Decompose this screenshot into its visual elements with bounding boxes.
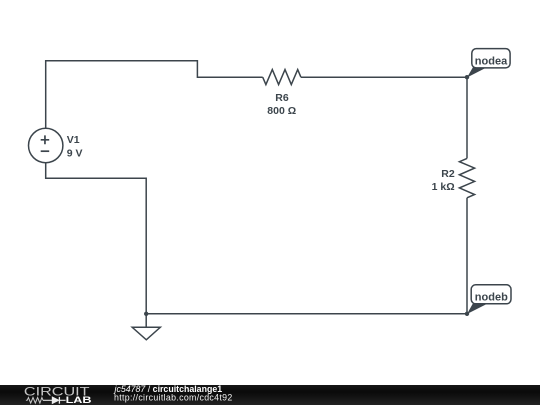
svg-text:1 kΩ: 1 kΩ <box>432 181 455 193</box>
svg-text:http://circuitlab.com/cdc4t92: http://circuitlab.com/cdc4t92 <box>114 393 233 403</box>
node B flag tail <box>467 304 488 314</box>
V1 plus symbol <box>41 135 50 144</box>
wire node A to R2 top <box>466 77 468 158</box>
logo diode bar <box>58 397 60 404</box>
wire V1 plus terminal to top-right step <box>46 61 263 129</box>
node B flag box <box>471 285 511 304</box>
svg-text:R2: R2 <box>441 168 455 180</box>
svg-text:LAB: LAB <box>66 395 93 405</box>
logo diode <box>52 397 58 403</box>
resistor R6 <box>263 70 301 85</box>
svg-text:800 Ω: 800 Ω <box>267 105 296 117</box>
footer bar <box>0 385 540 405</box>
wire V1 minus terminal to ground junction <box>46 163 147 314</box>
junction node B <box>465 312 469 316</box>
ground symbol <box>132 327 160 340</box>
wire R6 to node A <box>301 76 467 78</box>
svg-text:nodeb: nodeb <box>475 291 508 303</box>
resistor R2 <box>459 158 474 197</box>
logo wire to diode <box>43 399 66 401</box>
wire R2 bottom to node B <box>466 198 468 314</box>
wire ground stub <box>145 314 147 328</box>
node A flag tail <box>467 68 487 78</box>
svg-text:nodea: nodea <box>475 55 508 67</box>
voltage source V1 circle <box>29 128 63 162</box>
svg-text:9 V: 9 V <box>67 147 83 159</box>
junction at ground <box>144 312 148 316</box>
logo resistor zigzag <box>26 398 43 404</box>
node A flag box <box>472 49 510 68</box>
wire node B to ground junction <box>146 313 467 315</box>
svg-text:V1: V1 <box>67 134 80 146</box>
svg-text:R6: R6 <box>275 92 289 104</box>
V1 minus symbol <box>41 150 50 152</box>
junction node A <box>465 75 469 79</box>
